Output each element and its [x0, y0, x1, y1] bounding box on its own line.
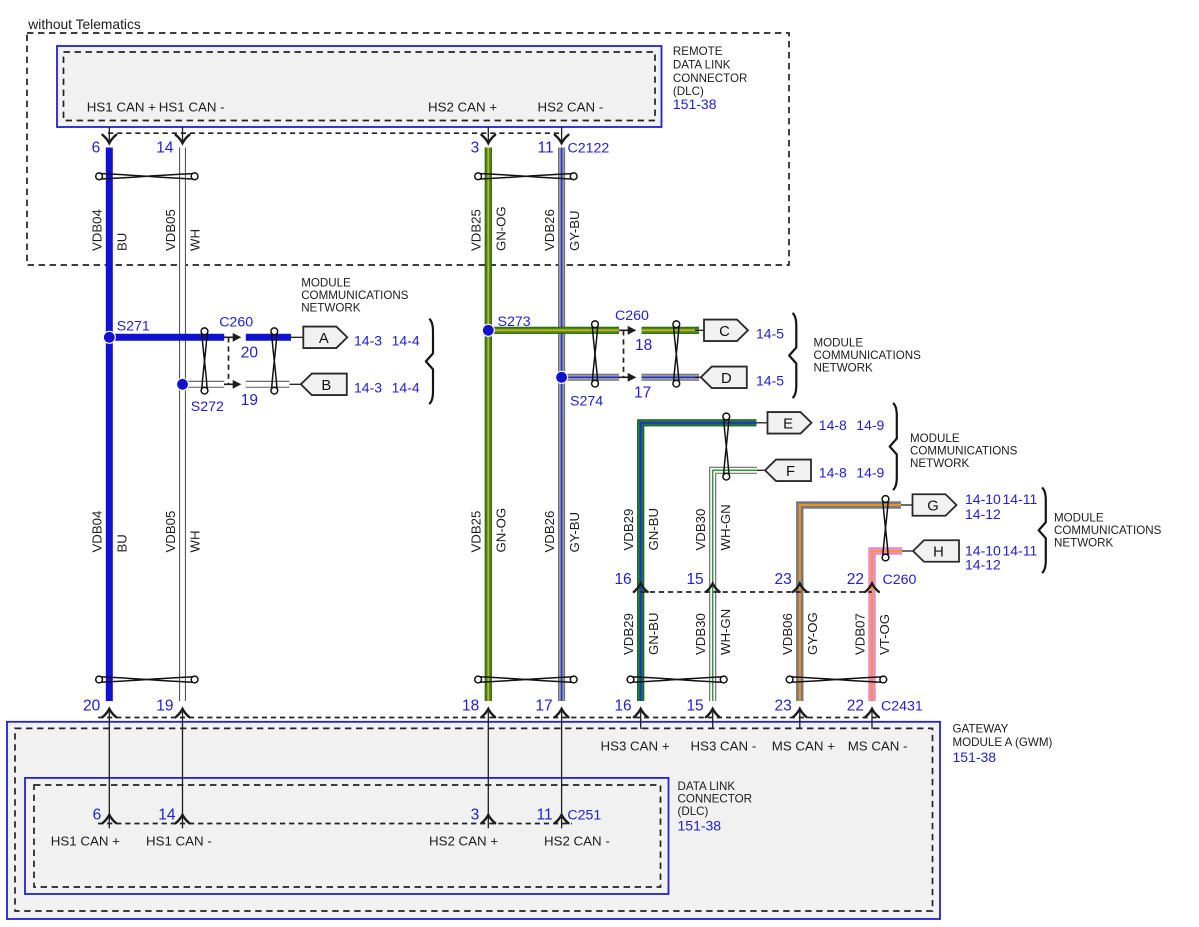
svg-text:DATA LINK: DATA LINK	[678, 780, 736, 793]
svg-text:WH-GN: WH-GN	[718, 609, 733, 655]
svg-text:14-3: 14-3	[354, 332, 382, 348]
svg-text:15: 15	[686, 571, 703, 588]
svg-text:14-9: 14-9	[856, 417, 884, 433]
svg-text:GY-BU: GY-BU	[567, 512, 582, 553]
svg-text:HS1 CAN +: HS1 CAN +	[51, 834, 120, 849]
svg-text:VDB25: VDB25	[469, 209, 484, 251]
svg-text:MS CAN +: MS CAN +	[772, 739, 835, 754]
svg-text:16: 16	[614, 698, 631, 715]
svg-text:11: 11	[537, 807, 553, 824]
svg-text:HS3 CAN -: HS3 CAN -	[691, 739, 757, 754]
svg-text:BU: BU	[115, 534, 130, 552]
svg-text:C251: C251	[567, 808, 601, 824]
svg-text:15: 15	[686, 698, 703, 715]
svg-text:18: 18	[635, 337, 652, 354]
svg-text:HS1 CAN +: HS1 CAN +	[87, 100, 156, 115]
svg-text:151-38: 151-38	[673, 96, 717, 112]
svg-text:GN-BU: GN-BU	[646, 508, 661, 551]
svg-text:14: 14	[156, 139, 174, 156]
svg-text:H: H	[933, 545, 944, 561]
svg-text:(DLC): (DLC)	[678, 805, 709, 818]
svg-text:VDB30: VDB30	[693, 613, 708, 655]
svg-text:19: 19	[241, 392, 258, 409]
svg-text:VDB06: VDB06	[780, 613, 795, 655]
svg-text:GN-OG: GN-OG	[494, 508, 509, 553]
svg-text:MS CAN -: MS CAN -	[848, 739, 908, 754]
svg-text:S272: S272	[191, 399, 224, 415]
svg-text:14-11: 14-11	[1003, 491, 1038, 507]
svg-text:151-38: 151-38	[953, 749, 997, 765]
svg-text:G: G	[927, 499, 939, 515]
svg-text:14-5: 14-5	[756, 325, 784, 341]
svg-text:14-5: 14-5	[756, 372, 784, 388]
svg-text:MODULE: MODULE	[910, 432, 960, 445]
svg-text:HS2 CAN -: HS2 CAN -	[538, 100, 604, 115]
svg-text:A: A	[319, 331, 329, 347]
svg-text:HS2 CAN +: HS2 CAN +	[429, 834, 498, 849]
svg-text:C: C	[719, 324, 730, 340]
svg-text:S274: S274	[570, 394, 603, 410]
svg-text:151-38: 151-38	[678, 818, 722, 834]
svg-text:MODULE A (GWM): MODULE A (GWM)	[953, 736, 1053, 749]
svg-text:E: E	[783, 416, 793, 432]
svg-text:NETWORK: NETWORK	[1054, 537, 1114, 550]
svg-text:GATEWAY: GATEWAY	[953, 723, 1009, 736]
svg-text:GN-OG: GN-OG	[494, 206, 509, 251]
svg-text:NETWORK: NETWORK	[910, 457, 970, 470]
svg-text:19: 19	[156, 698, 173, 715]
svg-text:3: 3	[471, 807, 480, 824]
svg-text:WH-GN: WH-GN	[718, 504, 733, 550]
svg-text:14-8: 14-8	[819, 417, 847, 433]
svg-text:C260: C260	[883, 572, 917, 588]
svg-text:F: F	[786, 464, 795, 480]
svg-text:BU: BU	[115, 233, 130, 251]
svg-text:14-8: 14-8	[819, 464, 847, 480]
svg-text:22: 22	[847, 698, 864, 715]
svg-text:CONNECTOR: CONNECTOR	[673, 72, 748, 85]
svg-text:GY-BU: GY-BU	[567, 210, 582, 251]
svg-text:17: 17	[535, 698, 552, 715]
svg-text:20: 20	[83, 698, 101, 715]
svg-text:14: 14	[158, 807, 176, 824]
svg-text:VDB04: VDB04	[90, 209, 105, 251]
svg-text:6: 6	[93, 807, 102, 824]
svg-text:VDB29: VDB29	[621, 613, 636, 655]
svg-text:HS3 CAN +: HS3 CAN +	[601, 739, 670, 754]
svg-text:23: 23	[775, 571, 792, 588]
svg-text:VDB26: VDB26	[542, 511, 557, 553]
svg-text:MODULE: MODULE	[301, 276, 351, 289]
svg-text:COMMUNICATIONS: COMMUNICATIONS	[301, 289, 409, 302]
svg-text:14-12: 14-12	[965, 557, 1001, 573]
svg-text:14-3: 14-3	[354, 379, 382, 395]
svg-text:14-9: 14-9	[856, 464, 884, 480]
svg-text:VDB07: VDB07	[852, 613, 867, 655]
svg-text:18: 18	[462, 698, 479, 715]
svg-text:NETWORK: NETWORK	[301, 302, 361, 315]
svg-text:DATA LINK: DATA LINK	[673, 59, 731, 72]
svg-text:D: D	[721, 371, 732, 387]
svg-text:HS2 CAN +: HS2 CAN +	[428, 100, 497, 115]
svg-text:MODULE: MODULE	[1054, 512, 1104, 525]
svg-text:HS2 CAN -: HS2 CAN -	[544, 834, 610, 849]
svg-text:3: 3	[471, 139, 480, 156]
svg-text:VT-OG: VT-OG	[877, 614, 892, 655]
svg-text:11: 11	[538, 139, 554, 156]
svg-text:MODULE: MODULE	[814, 337, 864, 350]
svg-text:C260: C260	[615, 308, 649, 324]
svg-text:C260: C260	[219, 314, 253, 330]
svg-text:14-10: 14-10	[965, 491, 1001, 507]
svg-text:C2122: C2122	[568, 140, 610, 156]
svg-text:CONNECTOR: CONNECTOR	[678, 793, 753, 806]
svg-text:VDB04: VDB04	[90, 511, 105, 553]
svg-text:NETWORK: NETWORK	[814, 362, 874, 375]
svg-text:22: 22	[847, 571, 864, 588]
svg-text:COMMUNICATIONS: COMMUNICATIONS	[910, 445, 1018, 458]
svg-text:GY-OG: GY-OG	[805, 612, 820, 655]
svg-text:HS1 CAN -: HS1 CAN -	[159, 100, 225, 115]
svg-text:23: 23	[775, 698, 792, 715]
svg-text:COMMUNICATIONS: COMMUNICATIONS	[1054, 524, 1162, 537]
svg-text:14-4: 14-4	[392, 379, 420, 395]
svg-text:VDB05: VDB05	[163, 209, 178, 251]
svg-text:VDB26: VDB26	[542, 209, 557, 251]
svg-text:6: 6	[92, 139, 101, 156]
svg-text:REMOTE: REMOTE	[673, 45, 723, 58]
svg-text:20: 20	[241, 345, 259, 362]
svg-text:GN-BU: GN-BU	[646, 613, 661, 656]
svg-text:17: 17	[634, 385, 651, 402]
svg-text:without Telematics: without Telematics	[27, 17, 141, 32]
svg-text:14-12: 14-12	[965, 506, 1001, 522]
svg-text:14-11: 14-11	[1003, 543, 1038, 559]
svg-text:COMMUNICATIONS: COMMUNICATIONS	[814, 349, 922, 362]
svg-text:HS1 CAN -: HS1 CAN -	[146, 834, 212, 849]
svg-text:S271: S271	[117, 319, 150, 335]
svg-text:WH: WH	[188, 531, 203, 553]
svg-text:B: B	[321, 378, 331, 394]
svg-text:C2431: C2431	[881, 699, 923, 715]
svg-text:S273: S273	[498, 314, 531, 330]
svg-text:16: 16	[614, 571, 631, 588]
svg-text:VDB29: VDB29	[621, 509, 636, 551]
svg-text:WH: WH	[188, 229, 203, 251]
svg-text:VDB25: VDB25	[469, 511, 484, 553]
svg-text:14-4: 14-4	[392, 332, 420, 348]
svg-text:VDB05: VDB05	[163, 511, 178, 553]
svg-text:VDB30: VDB30	[693, 509, 708, 551]
